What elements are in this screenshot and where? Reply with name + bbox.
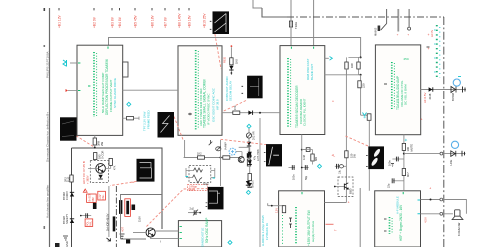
svg-text:1Vpp: 1Vpp (203, 183, 209, 186)
wire plug to bus (236, 152, 242, 158)
svg-text:+B3 8V: +B3 8V (111, 16, 115, 28)
transistor Q50 (238, 157, 244, 163)
shield boundary dash-dot horizontal (287, 16, 444, 18)
IC U6 top pin tick (301, 192, 303, 194)
transistor Q6 hor driver (146, 228, 155, 237)
svg-text:VOLUME DC CTRL: VOLUME DC CTRL (400, 80, 404, 107)
resistor R61 (247, 159, 250, 166)
svg-text:MAINS: MAINS (374, 28, 378, 36)
resistor R72 (109, 158, 117, 170)
svg-text:110V: 110V (138, 216, 142, 222)
red warning triangle (83, 189, 87, 192)
svg-text:Die neuste Chassis hor. deflec: Die neuste Chassis hor. deflection B+ (45, 112, 49, 162)
svg-text:BLANK CRT: BLANK CRT (310, 64, 314, 80)
node label +B3 (111, 8, 115, 28)
IC U4 audio (375, 45, 420, 135)
trimmer RT1 (246, 131, 255, 140)
IC U2 pin arrow (188, 113, 192, 116)
EW drive row wire (184, 140, 239, 158)
wire: main top horizontal bus (109, 38, 361, 58)
pin marker red (66, 89, 78, 92)
svg-text:+B5 45V: +B5 45V (134, 14, 138, 28)
speaker LS1 (452, 210, 463, 236)
terminator cap 2 (462, 151, 465, 157)
IC U6 pin column (283, 207, 297, 244)
ground sym (120, 234, 125, 238)
svg-text:680: 680 (315, 156, 318, 161)
shield boundary dash-dot vertical (443, 17, 445, 247)
connector ring (440, 152, 443, 155)
red service box 4 (125, 199, 131, 217)
svg-text:S-COR: S-COR (101, 151, 105, 159)
svg-text:A-F MODULE: A-F MODULE (396, 196, 400, 214)
svg-text:2K2 VR: 2K2 VR (253, 131, 256, 140)
svg-text:+B6 18V: +B6 18V (151, 14, 155, 28)
svg-text:FUS: FUS (67, 177, 71, 182)
resistor R33 (345, 151, 357, 158)
svg-text:4.5V: 4.5V (424, 217, 428, 223)
svg-text:10u: 10u (339, 169, 342, 174)
node label +B1 (58, 8, 62, 28)
svg-text:+B1 12V: +B1 12V (58, 14, 62, 28)
svg-text:SANDCASTLE: SANDCASTLE (201, 228, 205, 247)
resistor R60 at U6 pin (268, 203, 286, 213)
svg-text:220: 220 (362, 83, 366, 88)
svg-text:HOT CC 07-65 B: HOT CC 07-65 B (82, 161, 86, 184)
plug P40 (453, 79, 460, 86)
resistor R70 on box edge (64, 175, 74, 182)
transistor Q30 in dashed outline (334, 177, 353, 197)
resistor R11 vertical below U1 (93, 135, 104, 148)
coil black bar 1 (113, 216, 116, 231)
svg-text:+B2 9V: +B2 9V (93, 16, 97, 28)
diode D20 (248, 111, 252, 115)
svg-text:SAFETY: SAFETY (65, 214, 69, 224)
node label +B9 (188, 8, 192, 28)
svg-text:50Hz RAMP GEN EHT COMP: 50Hz RAMP GEN EHT COMP (101, 73, 105, 113)
wire hor out (108, 186, 110, 237)
red dashed label box (188, 185, 208, 192)
IC U7 sub box bottom (178, 221, 221, 247)
resistor R42 (402, 169, 410, 178)
red dashed pointer from W8 (221, 139, 267, 144)
resistor R20 (233, 105, 240, 114)
waveform photo W5 (137, 159, 155, 182)
electrolytic C80 (132, 205, 136, 211)
svg-text:+B4 8V: +B4 8V (118, 16, 122, 28)
connector pin list CN1 (427, 25, 440, 80)
wire U4 right audio out (421, 89, 466, 91)
waveform W1 scale ticks (210, 21, 212, 29)
transformer black blob (126, 239, 130, 244)
coil black bar 2 (119, 200, 122, 214)
svg-text:FAIL: FAIL (90, 220, 93, 226)
wire U5 out 1 (421, 200, 467, 214)
transistor Q41 (449, 151, 456, 166)
svg-text:95V: 95V (92, 197, 95, 202)
margin tick (44, 45, 46, 47)
svg-text:22u: 22u (387, 183, 391, 188)
wire: mains corner (262, 8, 287, 17)
wire Q6 emitter to U7 (151, 237, 179, 239)
wire choke to U5 (368, 121, 370, 191)
svg-text:HOT: HOT (122, 226, 125, 232)
svg-text:25C: 25C (404, 57, 410, 61)
svg-text:BC548: BC548 (451, 93, 455, 101)
W7 scale ticks (366, 155, 368, 166)
waveform W3 scale ticks (242, 86, 244, 93)
IC U1 left pin ticks (78, 63, 90, 91)
IC U5 right pin ticks (418, 200, 421, 214)
IC U4 pin number (384, 83, 387, 85)
red dashed pointer from W7 (346, 136, 369, 146)
IC U6 pin numbers TT (289, 218, 292, 228)
cyan diamond bottom (228, 241, 232, 245)
wire U1 right pin (123, 89, 178, 91)
red service box 3 (85, 219, 93, 227)
terminator cap (463, 87, 466, 93)
svg-text:+: + (407, 33, 409, 37)
svg-text:+B10 25V: +B10 25V (203, 13, 207, 28)
resistor R10 (123, 117, 139, 120)
cyan diamond tp (318, 164, 322, 168)
W6 scale ticks (206, 203, 208, 207)
node label +B5 (134, 8, 138, 28)
capacitor C32 (301, 165, 309, 180)
connector text block right of U2 (225, 76, 232, 101)
svg-text:+: + (428, 47, 430, 51)
cyan test diamond (127, 102, 131, 106)
wire supply down (360, 75, 362, 115)
capacitor C41 (388, 157, 404, 167)
IC U5 pin column (384, 217, 392, 234)
connector ring 2 (440, 212, 443, 215)
waveform photo W3 (247, 76, 263, 99)
resistor R51 (223, 156, 230, 159)
resistor R41 (402, 143, 413, 151)
resistor R32 (302, 150, 318, 165)
wire Q6 collector to U7 (155, 230, 178, 232)
connector ring (440, 198, 443, 201)
W8 scale ticks (264, 153, 266, 162)
svg-text:PHILIPS 21PT166A: PHILIPS 21PT166A (45, 51, 49, 78)
resistor R31 (358, 81, 366, 88)
IC U2 jungle (178, 46, 222, 136)
svg-text:T2AH: T2AH (294, 22, 298, 29)
preset pot P50 (209, 140, 228, 151)
diode D71 (62, 214, 74, 224)
svg-text:supply hor drive: supply hor drive (311, 220, 315, 242)
svg-text:1W: 1W (353, 154, 357, 158)
wire U3 bottom pin (301, 135, 303, 191)
W5 red dash tail (132, 181, 136, 183)
capacitor C31 (289, 165, 296, 180)
svg-text:+: + (397, 33, 399, 37)
capacitor C70 above U7 (188, 207, 201, 216)
power block outline (72, 148, 163, 247)
cyan marks EW (186, 177, 216, 179)
waveform photo W6 (208, 187, 224, 210)
svg-text:+: + (332, 100, 334, 104)
svg-text:Hot chassis line amplifier: Hot chassis line amplifier (45, 185, 49, 218)
IC U4 pin column (392, 62, 395, 110)
svg-text:HEF + Bogen 2N30 - 16V: HEF + Bogen 2N30 - 16V (399, 204, 403, 241)
red dashed pointer from W5 (110, 181, 137, 185)
svg-text:LINE: LINE (449, 159, 453, 165)
bus wire left of U6 (259, 118, 261, 247)
svg-text:CLOCHE PLL IDENT: CLOCHE PLL IDENT (303, 98, 307, 126)
svg-text:47K: 47K (114, 165, 117, 170)
cyan diamond tp2 (246, 190, 250, 194)
waveform photo W7 (368, 146, 384, 169)
IC U1 side notch (123, 62, 128, 77)
svg-text:FRAME FEED: FRAME FEED (147, 110, 151, 129)
mains switch S1 (374, 9, 387, 36)
waveform photo W2 (60, 117, 77, 140)
svg-text:+B8 140V: +B8 140V (178, 13, 182, 28)
svg-text:1N4007: 1N4007 (65, 190, 69, 200)
corner mark (55, 243, 60, 247)
wire U5 out 2 (421, 213, 453, 215)
IC U7 left pin ticks (180, 227, 182, 239)
diode D60 vertical (246, 179, 255, 189)
mains wire N with contact (407, 9, 410, 37)
svg-text:AF 0.5V: AF 0.5V (423, 92, 427, 103)
svg-text:12V: 12V (275, 208, 279, 213)
IC U5 top pin tick (402, 192, 404, 194)
junction dot (220, 157, 222, 159)
diode D70 (62, 190, 74, 200)
transistor Q40 (451, 87, 456, 102)
svg-text:100n: 100n (293, 174, 296, 180)
wire U3 right pin to supply (325, 74, 361, 76)
ground bus vertical (359, 188, 361, 247)
supply rail vertical (345, 69, 347, 203)
svg-text:FLYBACK IN: FLYBACK IN (265, 223, 269, 240)
diode D40 (428, 87, 433, 99)
transistor Q70 in dashed outline (88, 161, 111, 183)
svg-text:1K8: 1K8 (350, 63, 354, 68)
capacitor C71 (80, 213, 91, 218)
junction dot top (360, 56, 362, 58)
red dashed pointer from W4 (174, 117, 183, 141)
svg-text:MUTE: MUTE (409, 144, 413, 152)
svg-text:4K7: 4K7 (406, 172, 410, 177)
IC U3 pin column (288, 58, 291, 128)
node label +B7 (164, 8, 168, 28)
svg-text:+: + (429, 187, 431, 191)
wire U2 to U3 video (222, 112, 280, 114)
red dashed pointer from W2 (76, 136, 94, 148)
junction dot (403, 153, 405, 155)
IC U3 processor (280, 46, 325, 135)
diode D61 (247, 142, 251, 146)
junction dot (430, 199, 432, 201)
IC U3 top pin ticks (291, 47, 313, 49)
plug P41 (451, 141, 458, 148)
red service box 1 (87, 193, 97, 202)
node label +B4 (118, 8, 122, 28)
resistor R71 inside psu (94, 151, 105, 160)
IC U5 output bottom right (375, 191, 421, 247)
junction dot (360, 74, 362, 76)
resistor R30 pair (345, 57, 361, 74)
node label +B8 (178, 8, 182, 28)
wire U4 bottom rail (403, 135, 405, 191)
border frame left rule (49, 8, 51, 247)
wire U6 right pin (325, 202, 347, 204)
IC U1 top pin tick (107, 47, 109, 49)
ceramic filter Z30 (301, 148, 310, 160)
wire junction vertical (220, 140, 222, 186)
svg-text:V-AMP: V-AMP (225, 142, 228, 150)
svg-text:SECAM DELAY: SECAM DELAY (229, 81, 233, 101)
red dashed pointer from W1 (215, 34, 221, 69)
ground marks bottom left (63, 236, 69, 247)
IC U2 pin column (196, 50, 199, 130)
diode chain right (239, 147, 252, 187)
crystal X1 cyan (63, 60, 77, 67)
node label +B2 (93, 8, 97, 28)
wire audio line out (404, 153, 466, 155)
capacitor C33 (335, 164, 347, 174)
svg-text:56p: 56p (305, 175, 308, 180)
svg-text:+: + (421, 118, 423, 122)
node label +B6 (151, 8, 155, 28)
electrolytic C61 (247, 153, 257, 160)
svg-text:DC VOL 8 OHM: DC VOL 8 OHM (404, 84, 408, 105)
svg-text:+B7 8V: +B7 8V (164, 16, 168, 28)
svg-text:8550: 8550 (350, 188, 353, 194)
svg-text:GND: GND (65, 241, 69, 247)
svg-text:4148: 4148 (428, 93, 432, 99)
IC U6 bottom middle (279, 191, 325, 247)
resistor R50 (197, 152, 205, 160)
arrow out (107, 238, 111, 241)
red service box 2 (98, 191, 106, 200)
svg-text:IF VIDEO PROC SYNC: IF VIDEO PROC SYNC (207, 93, 211, 125)
svg-text:2u2: 2u2 (190, 207, 195, 211)
svg-text:REG: REG (223, 57, 227, 63)
waveform photo W1 (213, 11, 230, 34)
svg-text:2W: 2W (100, 142, 104, 146)
margin tick (44, 226, 46, 229)
svg-text:+ 385V: + 385V (86, 175, 90, 184)
IC U1 deflection processor (77, 45, 123, 135)
svg-text:1K0: 1K0 (235, 59, 239, 64)
svg-text:8 OHM 3W: 8 OHM 3W (457, 222, 461, 236)
adjust plug blue (229, 148, 236, 155)
wire: vertical into IC3 pin (290, 0, 292, 46)
wire: mains stub (253, 0, 262, 8)
supply dropper vertical between U2 U3 (229, 45, 238, 75)
wire Q6 base (133, 232, 146, 234)
waveform photo W8 (266, 144, 282, 166)
svg-text:T: T (334, 229, 338, 231)
svg-text:50Hz OSC RAMP: 50Hz OSC RAMP (205, 218, 209, 243)
svg-text:+L: +L (332, 154, 336, 158)
svg-text:50Hz: 50Hz (189, 188, 196, 191)
svg-text:AGC TUNER DEM VCO REF: AGC TUNER DEM VCO REF (199, 88, 203, 126)
svg-text:4.43: 4.43 (303, 155, 306, 160)
red dashed pointer from W3 (222, 101, 246, 112)
svg-text:FAIL: FAIL (102, 194, 105, 200)
IC U3 right pin stub (325, 57, 333, 61)
capacitor C42 (387, 178, 404, 188)
svg-text:VIF 38.9: VIF 38.9 (216, 99, 220, 110)
margin tick (44, 8, 46, 11)
IC U1 pin column (94, 52, 97, 117)
waveform photo W4 (158, 112, 175, 138)
svg-text:47u: 47u (254, 155, 257, 160)
dashed pair box EW (186, 166, 215, 184)
svg-text:SYNC GUARD DRIVE: SYNC GUARD DRIVE (113, 78, 117, 108)
cyan tick (458, 76, 461, 78)
svg-text:+: + (428, 33, 430, 37)
electrolytic C70b (93, 203, 97, 209)
svg-text:+B9 16V: +B9 16V (188, 14, 192, 28)
svg-text:+: + (348, 201, 350, 205)
junction dot (259, 112, 261, 114)
fuse F1 (289, 21, 298, 29)
svg-text:AC IN: AC IN (430, 30, 434, 37)
red pin mark U6 (326, 224, 338, 231)
red dashed pointer to W6 (147, 189, 208, 227)
svg-text:100n: 100n (388, 160, 392, 166)
wire: vertical into IC3 pin 2 (313, 0, 315, 46)
svg-text:1K2: 1K2 (197, 152, 202, 156)
vertical feed with trimmer (247, 124, 251, 162)
choke L30 (361, 113, 371, 121)
driver sub-board box (121, 195, 163, 240)
mains wire L (397, 9, 399, 37)
dash-dot vertical hot barrier (115, 186, 117, 247)
